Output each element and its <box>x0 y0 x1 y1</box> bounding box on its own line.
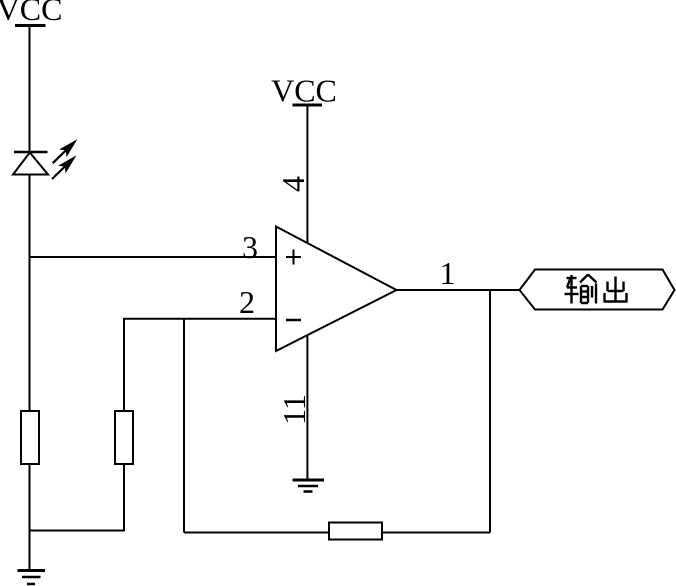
wire ground net horizontal <box>30 530 125 532</box>
photodiode D1 cathode bar <box>14 151 48 154</box>
op-amp - sign <box>286 319 301 322</box>
resistor R3 <box>329 523 382 540</box>
wire feedback bottom horizontal <box>184 532 490 534</box>
svg-text:2: 2 <box>239 284 255 320</box>
wire pin 4 <box>306 105 308 243</box>
svg-text:11: 11 <box>276 394 312 425</box>
output label Chinese char 出 <box>604 277 628 302</box>
wire feedback up to output <box>489 290 491 533</box>
wire pin 11 <box>306 335 308 480</box>
wire node to op-amp + input <box>29 256 277 258</box>
svg-text:VCC: VCC <box>271 73 337 109</box>
op-amp U1 triangle <box>276 227 397 352</box>
wire to op-amp - input <box>123 318 276 320</box>
VCC bar (left supply) <box>15 24 46 27</box>
wire inverting node down to R2 <box>123 319 125 411</box>
resistor R2 <box>115 411 133 464</box>
svg-text:4: 4 <box>275 176 311 192</box>
ground symbol G1 <box>18 571 46 585</box>
wire VCC to photodiode <box>29 26 31 153</box>
VCC bar (op-amp supply) <box>293 104 323 107</box>
photodiode light arrow 1 <box>53 141 76 164</box>
ground symbol G2 <box>293 480 325 492</box>
wire R2 to ground net <box>123 464 125 532</box>
photodiode D1 triangle <box>13 153 48 175</box>
output label Chinese char 输 <box>565 275 597 304</box>
wire feedback branch down <box>183 319 185 533</box>
output connector hexagon <box>520 270 675 310</box>
resistor R1 <box>21 411 39 464</box>
wire op-amp output <box>397 289 520 291</box>
wire R1 to ground <box>29 464 31 571</box>
op-amp + sign <box>286 250 301 265</box>
svg-text:VCC: VCC <box>0 0 62 27</box>
svg-text:1: 1 <box>440 255 456 291</box>
svg-text:3: 3 <box>242 229 258 265</box>
wire photodiode to R1 <box>29 175 31 412</box>
photodiode light arrow 2 <box>52 157 75 179</box>
